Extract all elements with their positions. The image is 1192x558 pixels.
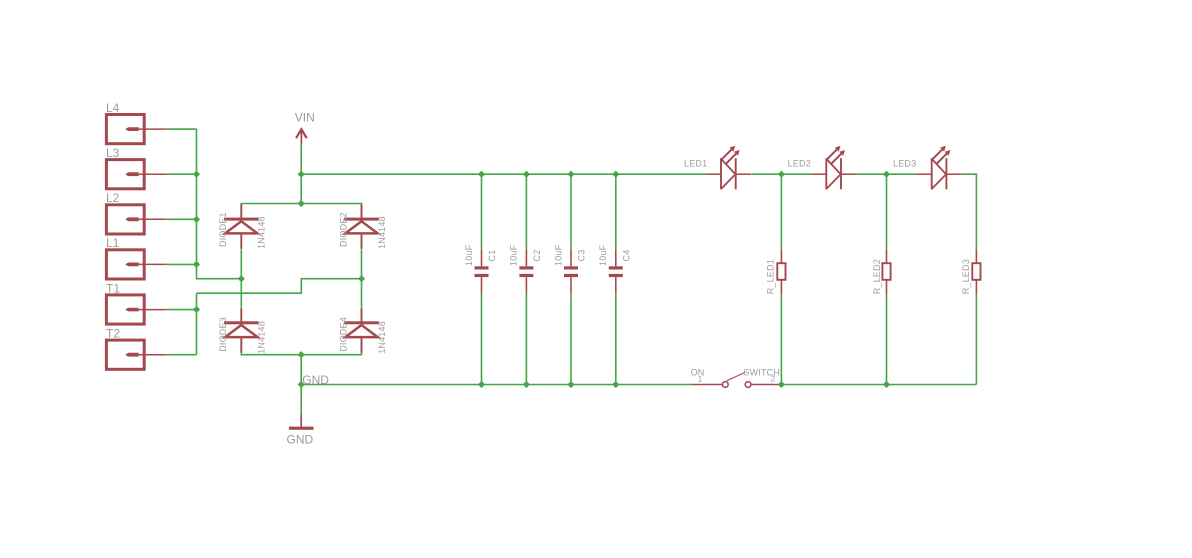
junction diode2/diode4 node [358, 275, 365, 282]
svg-text:LED1: LED1 [684, 159, 707, 169]
junction C1 top [478, 171, 485, 178]
wire diode1-diode3 vertical [240, 249, 242, 308]
diode DIODE3 1N4148 [224, 308, 259, 352]
junction C4 top [612, 171, 619, 178]
supply symbol VIN [295, 110, 315, 144]
wire bridge bottom to GND bus [300, 355, 302, 385]
svg-text:1N4148: 1N4148 [377, 216, 387, 249]
connector T2 [106, 327, 167, 370]
wire top bus to C3 [570, 174, 572, 250]
wire R_LED2 bottom [886, 295, 888, 385]
connector L1 [106, 236, 167, 279]
diode DIODE1 1N4148 [224, 205, 259, 249]
LED LED2 [811, 146, 856, 190]
svg-text:C4: C4 [621, 250, 631, 262]
wire diode2-diode4 vertical [361, 249, 363, 308]
junction L2/L-bus [193, 216, 200, 223]
svg-text:10uF: 10uF [553, 244, 563, 266]
junction C1 bottom [478, 381, 485, 388]
junction C3 top [567, 171, 574, 178]
wire C4 to bottom bus [615, 293, 617, 384]
junction node A [778, 171, 785, 178]
svg-text:10uF: 10uF [509, 244, 519, 266]
junction VIN/bridge top [298, 200, 305, 207]
wire bridge top rail [241, 204, 361, 220]
svg-text:GND: GND [287, 432, 314, 446]
svg-text:L3: L3 [106, 146, 120, 160]
wire C1 to bottom bus [481, 293, 483, 384]
wire R_LED3 top [975, 249, 977, 251]
svg-text:T1: T1 [106, 281, 120, 295]
junction C2 top [523, 171, 530, 178]
svg-text:C2: C2 [532, 250, 542, 262]
svg-text:1: 1 [698, 375, 703, 384]
wire top bus to C1 [481, 174, 483, 250]
wire R_LED1 top [780, 174, 782, 250]
wire T-net vertical bus [196, 293, 198, 355]
wire L2 pin to bus [167, 218, 197, 220]
junction node A bottom [778, 381, 785, 388]
svg-text:DIODE2: DIODE2 [338, 212, 348, 247]
svg-text:DIODE3: DIODE3 [218, 317, 228, 352]
junction C4 bottom [612, 381, 619, 388]
connector L3 [106, 146, 167, 189]
switch SWITCH [692, 373, 779, 388]
wire bottom bus GND to switch [301, 384, 691, 386]
svg-text:DIODE1: DIODE1 [218, 212, 228, 247]
svg-text:L2: L2 [106, 191, 120, 205]
svg-text:T2: T2 [106, 327, 120, 341]
junction GND/bridge bottom [298, 351, 305, 358]
wire L3 pin to bus [167, 173, 197, 175]
svg-text:R_LED2: R_LED2 [872, 259, 882, 294]
resistor R_LED3 [972, 250, 980, 295]
wire L-net vertical bus [197, 129, 242, 279]
connector L4 [106, 101, 167, 144]
connector L2 [106, 191, 167, 234]
junction node B [883, 171, 890, 178]
svg-text:L4: L4 [106, 101, 120, 115]
junction T1/T-bus [193, 306, 200, 313]
junction C3 bottom [567, 381, 574, 388]
wire R_LED2 top [886, 174, 888, 250]
capacitor C4 10uF [609, 250, 623, 294]
svg-text:R_LED1: R_LED1 [765, 259, 775, 294]
diode DIODE4 1N4148 [344, 308, 379, 352]
junction diode1/diode3 node [238, 275, 245, 282]
junction VIN/top bus [298, 171, 305, 178]
svg-text:R_LED3: R_LED3 [961, 259, 971, 294]
capacitor C1 10uF [475, 250, 489, 294]
ground symbol GND [287, 414, 314, 446]
svg-text:DIODE4: DIODE4 [338, 317, 348, 352]
svg-text:1N4148: 1N4148 [257, 216, 267, 249]
svg-text:LED2: LED2 [788, 159, 811, 169]
junction node B bottom [883, 381, 890, 388]
wire LED1 to LED2 [751, 173, 811, 175]
wire top bus to C2 [525, 174, 527, 250]
wire VIN to top bus [300, 145, 302, 204]
wire T2 pin to bus [167, 354, 197, 356]
svg-text:1N4148: 1N4148 [257, 321, 267, 354]
svg-text:VIN: VIN [295, 110, 315, 124]
svg-text:1N4148: 1N4148 [377, 321, 387, 354]
svg-text:2: 2 [771, 374, 776, 383]
resistor R_LED2 [882, 250, 890, 295]
junction L1/L-bus [193, 261, 200, 268]
wire top bus VIN to LED1 [301, 173, 706, 175]
wire T-net horizontal with jog [197, 279, 362, 294]
junction GND bus tee [298, 381, 305, 388]
wire GND stub [300, 385, 302, 415]
svg-text:LED3: LED3 [893, 159, 916, 169]
wire R_LED3 bottom [975, 295, 977, 385]
svg-text:L1: L1 [106, 236, 120, 250]
svg-text:C1: C1 [487, 250, 497, 262]
wire L1 pin to bus [167, 263, 197, 265]
LED LED1 [706, 146, 751, 190]
wire LED3 to right corner [962, 174, 977, 250]
junction C2 bottom [523, 381, 530, 388]
wire T1 pin to bus [167, 309, 197, 311]
wire top bus to C4 [615, 174, 617, 250]
svg-text:10uF: 10uF [464, 244, 474, 266]
wire R_LED1 bottom [780, 295, 782, 385]
connector T1 [106, 281, 167, 324]
wire bottom bus switch to right corner [778, 384, 976, 386]
diode DIODE2 1N4148 [344, 205, 379, 249]
wire L4 pin to bus [167, 128, 197, 130]
svg-text:10uF: 10uF [598, 244, 608, 266]
wire C3 to bottom bus [570, 293, 572, 384]
wire C2 to bottom bus [525, 293, 527, 384]
capacitor C2 10uF [519, 250, 533, 294]
junction L3/L-bus [193, 171, 200, 178]
capacitor C3 10uF [564, 250, 578, 294]
wire LED2 to LED3 [856, 173, 916, 175]
wire bridge bottom rail [241, 337, 361, 355]
LED LED3 [917, 146, 962, 190]
resistor R_LED1 [777, 250, 785, 295]
svg-text:C3: C3 [577, 250, 587, 262]
